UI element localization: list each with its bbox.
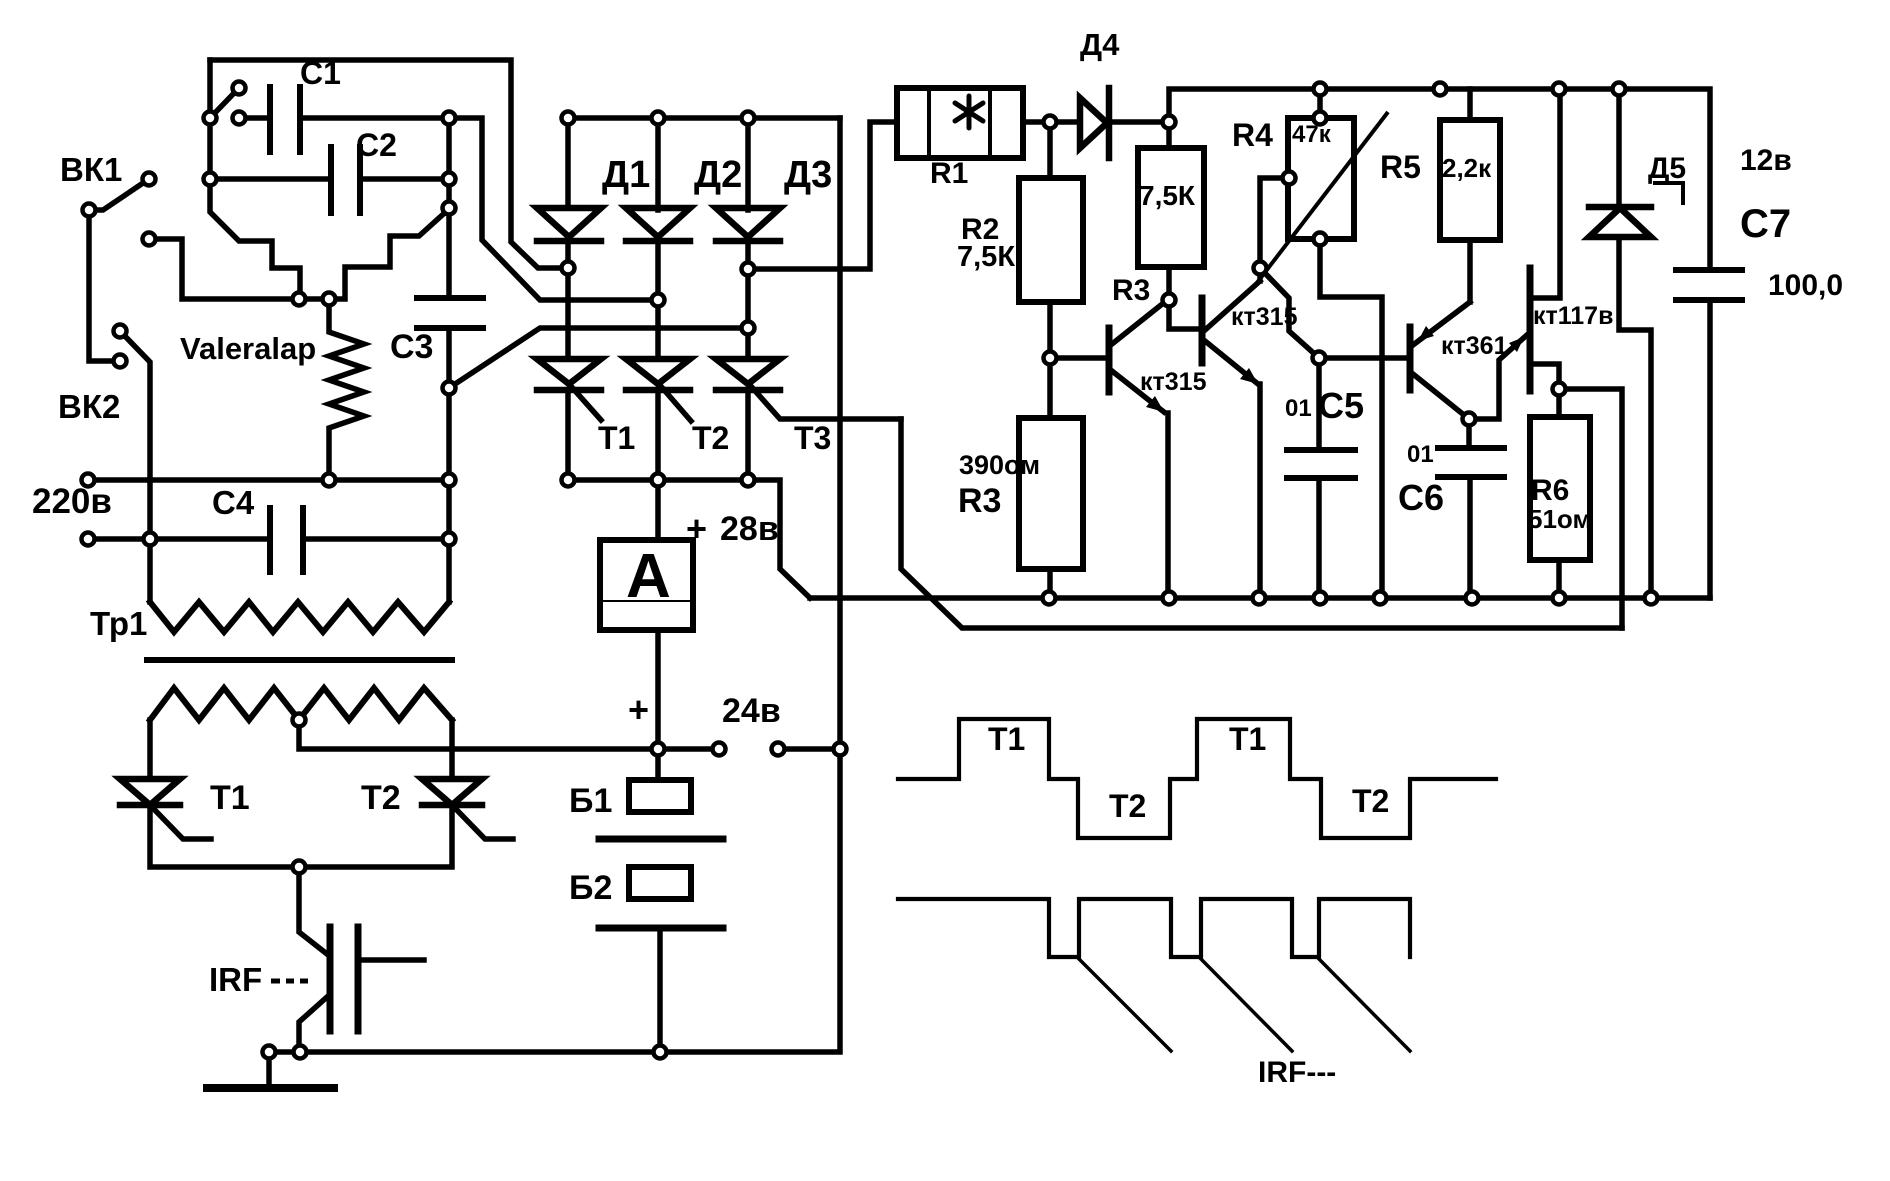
svg-text:ВК1: ВК1: [60, 151, 122, 188]
svg-text:R4: R4: [1232, 117, 1273, 153]
svg-text:C4: C4: [212, 484, 255, 521]
svg-text:390ом: 390ом: [959, 450, 1040, 480]
svg-text:Д5: Д5: [1648, 152, 1686, 185]
svg-text:7,5К: 7,5К: [1139, 180, 1196, 211]
svg-text:C1: C1: [300, 55, 341, 91]
svg-text:Т1: Т1: [1229, 721, 1266, 757]
svg-text:Д3: Д3: [784, 154, 832, 196]
svg-text:кт315: кт315: [1231, 303, 1298, 331]
svg-text:Д2: Д2: [694, 154, 742, 196]
svg-text:Т1: Т1: [210, 779, 250, 817]
svg-text:Т2: Т2: [692, 420, 729, 456]
svg-text:R3: R3: [958, 482, 1001, 520]
svg-text:24в: 24в: [722, 692, 781, 730]
svg-text:R3: R3: [1112, 274, 1150, 307]
svg-text:кт117в: кт117в: [1533, 302, 1613, 330]
svg-text:Д1: Д1: [602, 154, 650, 196]
svg-text:Б1: Б1: [569, 782, 612, 820]
svg-text:C3: C3: [390, 328, 433, 366]
svg-text:С5: С5: [1318, 385, 1364, 426]
svg-text:кт315: кт315: [1140, 368, 1207, 396]
svg-text:51ом: 51ом: [1528, 504, 1592, 534]
svg-text:R5: R5: [1380, 149, 1421, 185]
svg-text:100,0: 100,0: [1768, 269, 1843, 302]
svg-text:А: А: [626, 542, 671, 611]
svg-text:R6: R6: [1531, 474, 1569, 507]
svg-text:Т2: Т2: [1352, 783, 1389, 819]
svg-text:C2: C2: [356, 127, 397, 163]
svg-text:Т2: Т2: [1109, 788, 1146, 824]
svg-text:Б2: Б2: [569, 869, 612, 907]
svg-text:+: +: [686, 508, 707, 549]
svg-text:Т2: Т2: [361, 779, 401, 817]
svg-text:12в: 12в: [1740, 144, 1792, 177]
svg-text:Т1: Т1: [988, 721, 1025, 757]
svg-text:+: +: [628, 689, 649, 730]
svg-text:IRF: IRF: [209, 961, 262, 998]
svg-text:47к: 47к: [1292, 121, 1332, 148]
svg-text:Д4: Д4: [1080, 27, 1120, 62]
svg-text:R1: R1: [930, 157, 968, 190]
svg-text:Тр1: Тр1: [90, 605, 147, 642]
svg-text:Т3: Т3: [794, 420, 831, 456]
svg-text:С6: С6: [1398, 477, 1444, 518]
svg-text:Valeralap: Valeralap: [180, 331, 316, 366]
svg-text:01: 01: [1407, 441, 1434, 468]
svg-text:2,2к: 2,2к: [1442, 153, 1492, 183]
svg-text:7,5К: 7,5К: [957, 241, 1015, 273]
svg-text:220в: 220в: [32, 482, 112, 521]
svg-text:01: 01: [1285, 395, 1312, 422]
svg-text:кт361: кт361: [1441, 332, 1508, 360]
svg-text:IRF---: IRF---: [1258, 1056, 1336, 1089]
svg-text:ВК2: ВК2: [58, 388, 120, 425]
svg-text:28в: 28в: [720, 510, 779, 548]
svg-text:Т1: Т1: [598, 420, 635, 456]
svg-text:C7: C7: [1740, 202, 1791, 246]
